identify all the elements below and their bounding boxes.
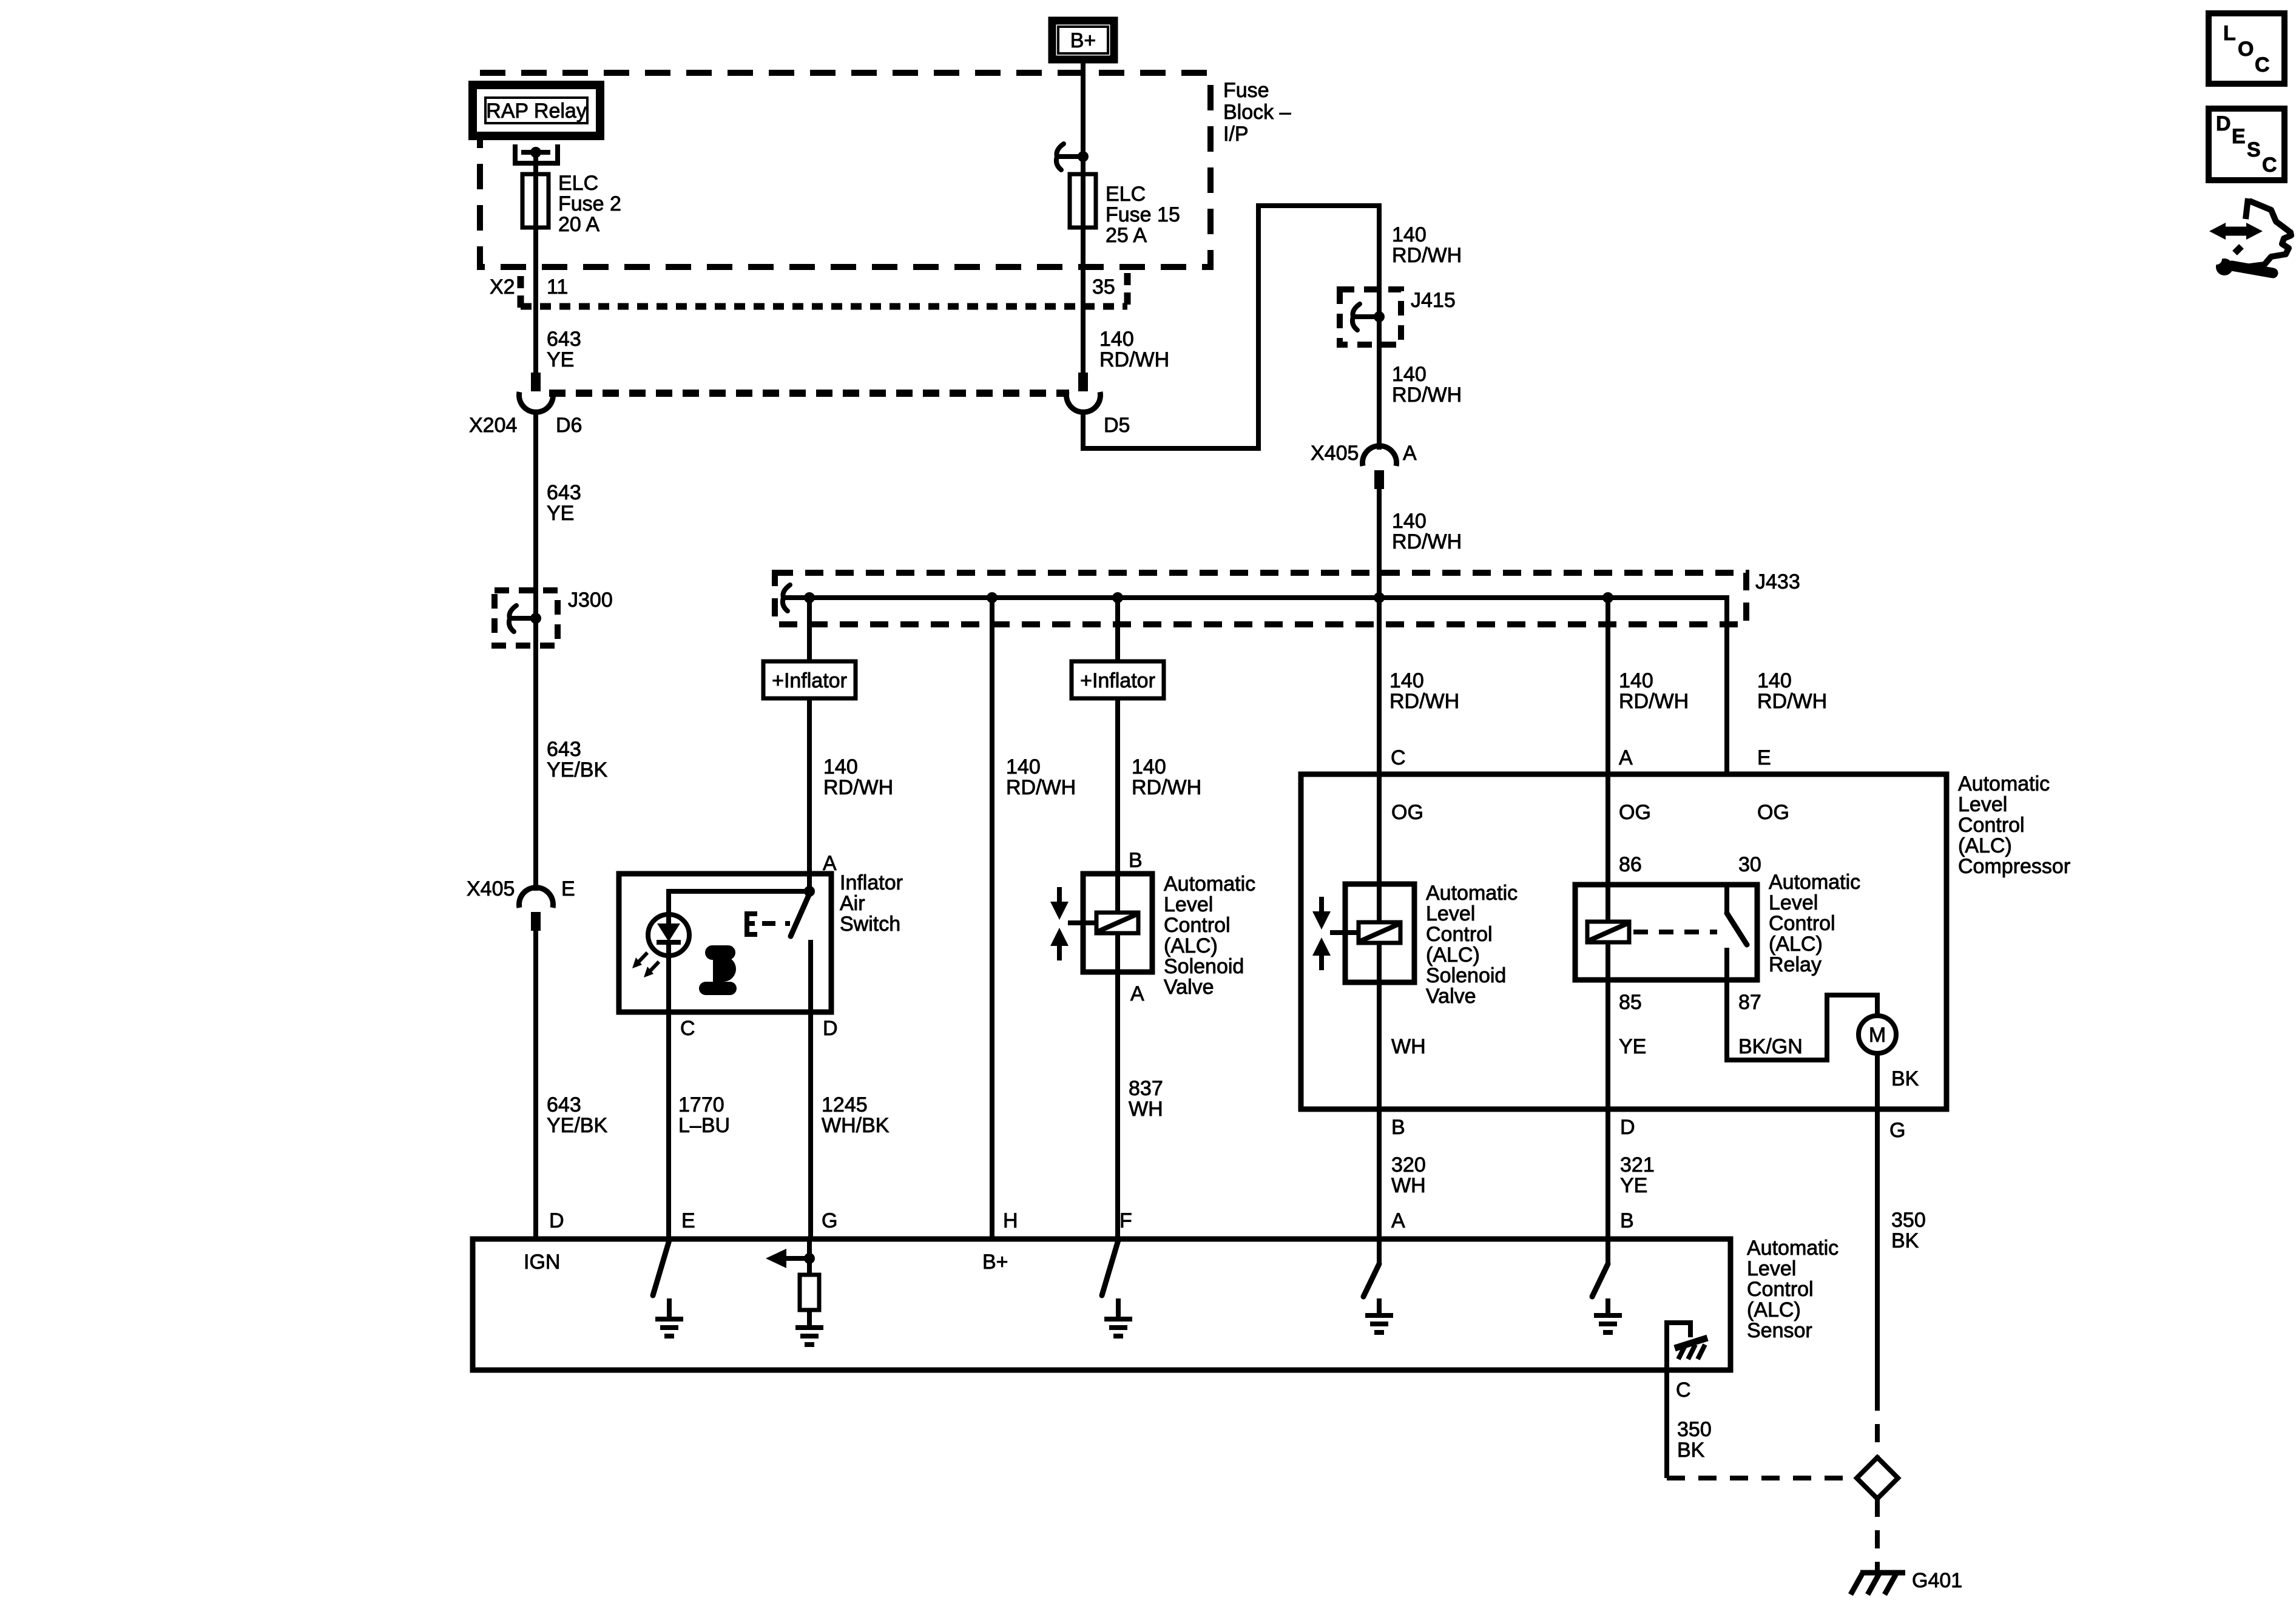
svg-text:YE: YE [547, 502, 574, 525]
wire left 643 [533, 410, 538, 593]
wire label 643 YE/BK [547, 1093, 607, 1137]
ALC compressor box [1301, 774, 1947, 1109]
svg-text:643: 643 [547, 328, 581, 351]
svg-text:35: 35 [1092, 275, 1115, 299]
svg-text:B+: B+ [982, 1251, 1008, 1274]
svg-text:Control: Control [1747, 1278, 1814, 1301]
wire label 350 BK [1891, 1209, 1926, 1252]
wire label 1770 L-BU [678, 1093, 730, 1137]
svg-text:L–BU: L–BU [678, 1114, 730, 1137]
icon wrench [2208, 251, 2273, 275]
ground G401 [1851, 1573, 1905, 1595]
svg-text:RD/WH: RD/WH [1619, 690, 1689, 713]
ground at G [795, 1310, 823, 1345]
label Automatic Level Control (ALC) Relay [1769, 871, 1860, 976]
svg-text:140: 140 [1389, 669, 1424, 692]
connector half D6 [519, 373, 553, 412]
svg-text:E: E [2232, 125, 2246, 148]
svg-text:OG: OG [1619, 801, 1651, 824]
svg-text:140: 140 [1392, 510, 1427, 533]
check valve symbol 2 [1312, 897, 1331, 970]
svg-text:G: G [822, 1209, 837, 1232]
junction node [1602, 592, 1613, 603]
junction node [1374, 592, 1385, 603]
svg-text:Level: Level [1769, 891, 1818, 914]
svg-text:RD/WH: RD/WH [1006, 776, 1076, 799]
wire X405A down to splice bus [1377, 489, 1382, 598]
svg-text:B: B [1129, 849, 1143, 872]
svg-text:140: 140 [1006, 755, 1041, 778]
svg-text:Sensor: Sensor [1747, 1319, 1812, 1342]
svg-text:25 A: 25 A [1106, 224, 1147, 247]
svg-text:Fuse 15: Fuse 15 [1106, 203, 1180, 226]
wire label 140 RD/WH [1392, 223, 1462, 267]
relay coil [1587, 885, 1629, 980]
svg-text:WH: WH [1129, 1098, 1163, 1121]
svg-text:Control: Control [1958, 814, 2025, 837]
svg-text:L: L [2223, 22, 2236, 45]
ALC sensor box [473, 1239, 1730, 1370]
svg-text:Control: Control [1769, 912, 1835, 935]
wire valve2 to compressor bottom [1377, 982, 1382, 1109]
svg-text:20 A: 20 A [558, 213, 599, 236]
svg-text:Relay: Relay [1769, 953, 1822, 976]
svg-text:140: 140 [1619, 669, 1653, 692]
svg-text:YE: YE [547, 348, 574, 371]
svg-text:(ALC): (ALC) [1426, 944, 1480, 967]
wire B+ down to fuse 15 [1081, 59, 1086, 373]
svg-text:ELC: ELC [1106, 183, 1146, 206]
motor M [1859, 1016, 1896, 1053]
label Automatic Level Control (ALC) Compressor [1958, 772, 2070, 878]
label Automatic Level Control (ALC) Solenoid Valve [1164, 873, 1255, 999]
svg-text:Air: Air [840, 892, 865, 915]
svg-text:D: D [2216, 112, 2231, 135]
icon hand outline [2246, 198, 2291, 267]
svg-text:A: A [1403, 442, 1417, 465]
junction node [804, 592, 815, 603]
svg-text:WH: WH [1391, 1174, 1426, 1197]
wire D to sensor G [808, 1012, 813, 1239]
+Inflator tag 1 [763, 661, 856, 698]
wire compressor B to sensor A [1377, 1109, 1382, 1239]
svg-text:WH/BK: WH/BK [822, 1114, 890, 1137]
svg-text:YE: YE [1620, 1174, 1647, 1197]
svg-text:643: 643 [547, 1093, 581, 1116]
check valve symbol 1 [1050, 887, 1069, 960]
svg-text:140: 140 [1392, 223, 1427, 246]
svg-text:643: 643 [547, 481, 581, 504]
fuse ELC Fuse 2 20 A [522, 174, 549, 228]
svg-text:M: M [1869, 1024, 1886, 1047]
ALC solenoid valve 2 box [1345, 884, 1414, 982]
icon DESC [2209, 109, 2284, 180]
bus wire J433 [783, 598, 1727, 774]
svg-text:Level: Level [1958, 793, 2007, 816]
svg-text:RD/WH: RD/WH [823, 776, 893, 799]
svg-text:E: E [1757, 746, 1771, 769]
svg-text:BK: BK [1891, 1229, 1919, 1252]
wire label 643 YE/BK [547, 738, 607, 781]
wire fuse2 stem [533, 152, 538, 373]
svg-text:140: 140 [823, 755, 858, 778]
wire 643 YE/BK upper [533, 593, 538, 891]
wire bus to compressor A [1606, 598, 1610, 922]
splice J415 [1340, 289, 1401, 345]
svg-text:11: 11 [547, 275, 568, 299]
svg-text:E: E [681, 1209, 695, 1232]
svg-text:G401: G401 [1912, 1569, 1962, 1592]
svg-text:Automatic: Automatic [1747, 1237, 1838, 1260]
junction node [1112, 592, 1123, 603]
junction node switch A [804, 886, 815, 897]
svg-text:S: S [2247, 138, 2261, 161]
svg-text:YE/BK: YE/BK [547, 758, 607, 781]
label ELC Fuse 15 25 A [1106, 183, 1180, 247]
LED indicator [632, 914, 689, 977]
wire compressor D to sensor B [1606, 1109, 1610, 1239]
svg-text:140: 140 [1132, 755, 1166, 778]
fuse ELC Fuse 15 25 A [1070, 174, 1096, 228]
svg-text:X2: X2 [490, 275, 515, 299]
svg-text:(ALC): (ALC) [1747, 1298, 1801, 1322]
svg-text:G: G [1889, 1119, 1905, 1142]
wire label 140 RD/WH [1099, 328, 1169, 371]
wire +Inflator1 to switch A [807, 698, 812, 891]
svg-text:Solenoid: Solenoid [1426, 964, 1506, 987]
svg-text:RD/WH: RD/WH [1757, 690, 1827, 713]
connector half D5 [1067, 373, 1101, 412]
wire label 1245 WH/BK [822, 1093, 890, 1137]
svg-text:Level: Level [1164, 893, 1213, 916]
svg-text:86: 86 [1619, 853, 1642, 876]
+Inflator tag 2 [1072, 661, 1164, 698]
svg-text:Automatic: Automatic [1958, 772, 2050, 795]
svg-text:837: 837 [1129, 1077, 1163, 1100]
switch actuator E linkage [747, 914, 790, 934]
svg-text:RD/WH: RD/WH [1132, 776, 1201, 799]
sensor wiper arrow [766, 1239, 815, 1275]
relay switch contact [1727, 885, 1747, 980]
wire label 140 RD/WH [1006, 755, 1076, 799]
label Inflator Air Switch [840, 871, 903, 936]
switch at B [1592, 1239, 1622, 1332]
svg-text:D6: D6 [556, 414, 582, 437]
svg-text:320: 320 [1391, 1153, 1426, 1176]
wire label 140 RD/WH [1389, 669, 1459, 713]
wire bus to +Inflator 1 [807, 598, 812, 661]
svg-text:Valve: Valve [1164, 976, 1214, 999]
svg-text:(ALC): (ALC) [1769, 933, 1823, 956]
svg-text:140: 140 [1757, 669, 1792, 692]
dashed wire to diamond [1875, 1393, 1880, 1459]
wire label 643 YE [547, 481, 581, 525]
svg-text:J300: J300 [568, 589, 613, 612]
internal wire to LED [669, 891, 809, 915]
svg-text:I/P: I/P [1223, 123, 1249, 146]
svg-text:D5: D5 [1104, 414, 1130, 437]
svg-text:D: D [1620, 1116, 1635, 1139]
svg-text:Inflator: Inflator [840, 871, 903, 894]
svg-text:Fuse 2: Fuse 2 [558, 192, 621, 215]
wire G down solid [1875, 1109, 1880, 1393]
svg-text:1770: 1770 [678, 1093, 724, 1116]
wire label 320 WH [1391, 1153, 1426, 1197]
switch at F [1102, 1240, 1132, 1336]
connector X204 dashed row [549, 390, 1069, 397]
wire label 140 RD/WH [1132, 755, 1201, 799]
wire bus to +Inflator 2 [1115, 598, 1120, 661]
splice J300 [495, 590, 558, 646]
dashed wire C to diamond [1667, 1476, 1857, 1480]
fuse holder bracket above ELC Fuse 2 [515, 144, 558, 163]
svg-text:B: B [1391, 1116, 1405, 1139]
svg-text:WH: WH [1391, 1035, 1426, 1058]
svg-text:O: O [2238, 38, 2254, 61]
svg-text:+Inflator: +Inflator [772, 669, 847, 692]
wire label 837 WH [1129, 1077, 1163, 1121]
icon LOC [2209, 13, 2284, 84]
wire valve1 to sensor F [1115, 972, 1120, 1239]
svg-text:321: 321 [1620, 1153, 1655, 1176]
RAP Relay box [473, 85, 600, 136]
svg-text:+Inflator: +Inflator [1080, 669, 1155, 692]
svg-text:A: A [1619, 746, 1633, 769]
svg-text:Fuse: Fuse [1223, 79, 1269, 102]
svg-text:BK/GN: BK/GN [1738, 1035, 1803, 1058]
solenoid coil valve 1 [1068, 874, 1138, 972]
switch contact [791, 894, 811, 1012]
connector half X405 E [519, 888, 553, 931]
svg-text:YE/BK: YE/BK [547, 1114, 607, 1137]
svg-text:30: 30 [1738, 853, 1761, 876]
svg-text:Automatic: Automatic [1164, 873, 1255, 896]
solenoid coil valve 2 [1330, 884, 1400, 982]
dashed wire diamond to G401 [1875, 1499, 1880, 1571]
wire bus to compressor C [1377, 598, 1382, 884]
svg-text:85: 85 [1619, 991, 1642, 1014]
svg-text:C: C [680, 1017, 695, 1040]
svg-text:IGN: IGN [524, 1251, 560, 1274]
svg-text:C: C [1391, 746, 1406, 769]
svg-text:C: C [2255, 53, 2270, 76]
svg-text:Block –: Block – [1223, 101, 1291, 124]
svg-text:A: A [1391, 1209, 1405, 1232]
svg-text:Solenoid: Solenoid [1164, 955, 1244, 978]
svg-text:YE: YE [1619, 1035, 1646, 1058]
svg-text:Automatic: Automatic [1426, 882, 1518, 905]
wire label 350 BK [1677, 1418, 1712, 1462]
label Automatic Level Control (ALC) Solenoid Valve [1426, 882, 1518, 1008]
svg-text:J433: J433 [1755, 570, 1800, 593]
resistor at G [800, 1275, 819, 1310]
label Automatic Level Control (ALC) Sensor [1747, 1237, 1838, 1342]
svg-text:ELC: ELC [558, 172, 598, 195]
svg-text:RD/WH: RD/WH [1389, 690, 1459, 713]
svg-text:Control: Control [1426, 923, 1493, 946]
svg-text:A: A [1130, 982, 1144, 1005]
label ELC Fuse 2 20 A [558, 172, 621, 236]
svg-text:350: 350 [1677, 1418, 1712, 1441]
wire sensor C down [1664, 1370, 1669, 1478]
svg-text:X204: X204 [469, 414, 517, 437]
svg-text:350: 350 [1891, 1209, 1926, 1232]
svg-text:Control: Control [1164, 914, 1231, 937]
svg-text:1245: 1245 [822, 1093, 868, 1116]
wire +Inflator2 to valve B [1115, 698, 1120, 874]
svg-text:E: E [561, 877, 575, 900]
junction node [987, 592, 998, 603]
Inflator Air Switch box [619, 874, 831, 1012]
svg-text:(ALC): (ALC) [1958, 834, 2012, 857]
wire motor to G [1875, 1053, 1880, 1109]
wire label 140 RD/WH [823, 755, 893, 799]
wire LED to C [666, 956, 671, 1239]
sensor internal chassis ground [1667, 1323, 1707, 1370]
svg-text:Compressor: Compressor [1958, 855, 2070, 878]
svg-text:RD/WH: RD/WH [1392, 530, 1462, 553]
svg-text:C: C [1676, 1379, 1691, 1402]
wire relay 87 to motor [1727, 980, 1877, 1060]
ALC relay box [1575, 885, 1757, 980]
wire bus to sensor H [990, 598, 994, 1239]
svg-text:BK: BK [1891, 1067, 1919, 1090]
pressure icon [699, 945, 737, 995]
wire label 140 RD/WH [1392, 510, 1462, 553]
svg-text:Valve: Valve [1426, 985, 1476, 1008]
wire 643 YE/BK lower to sensor [533, 931, 538, 1239]
power feed B+ box [1052, 21, 1114, 59]
svg-text:B: B [1620, 1209, 1634, 1232]
svg-text:87: 87 [1738, 991, 1761, 1014]
svg-text:(ALC): (ALC) [1164, 934, 1218, 957]
connector half X405 A [1363, 446, 1397, 489]
svg-text:Level: Level [1426, 902, 1475, 925]
switch at A [1363, 1239, 1393, 1332]
svg-text:643: 643 [547, 738, 581, 761]
wire label 643 YE [547, 328, 581, 371]
svg-text:X405: X405 [1311, 442, 1359, 465]
svg-text:C: C [2262, 154, 2277, 177]
fuse block I/P dashed outline [480, 73, 1210, 267]
splice J433 dashed box [775, 573, 1746, 624]
svg-text:RD/WH: RD/WH [1099, 348, 1169, 371]
splice diamond [1857, 1457, 1898, 1499]
svg-text:RD/WH: RD/WH [1392, 244, 1462, 267]
svg-text:RAP Relay: RAP Relay [486, 100, 587, 123]
icon double arrow [2209, 223, 2263, 240]
wire label 321 YE [1620, 1153, 1655, 1197]
svg-text:Automatic: Automatic [1769, 871, 1860, 894]
svg-text:B+: B+ [1070, 29, 1096, 52]
svg-text:OG: OG [1391, 801, 1423, 824]
relay linkage dashes [1633, 930, 1717, 934]
splice hook J433 [783, 585, 790, 611]
wire label 140 RD/WH [1392, 363, 1462, 407]
svg-text:D: D [823, 1017, 838, 1040]
svg-text:Switch: Switch [840, 913, 900, 936]
wire label 140 RD/WH [1619, 669, 1689, 713]
connector X2 dashed row [521, 273, 1127, 308]
ALC solenoid valve 1 box [1083, 874, 1152, 972]
svg-text:RD/WH: RD/WH [1392, 383, 1462, 407]
svg-text:140: 140 [1099, 328, 1134, 351]
label Fuse Block - I/P [1223, 79, 1291, 146]
wire relay 85 to compressor bottom [1606, 980, 1610, 1109]
svg-text:J415: J415 [1411, 289, 1456, 312]
switch at E [653, 1240, 683, 1336]
svg-text:OG: OG [1757, 801, 1789, 824]
svg-text:H: H [1003, 1209, 1018, 1232]
svg-text:140: 140 [1392, 363, 1427, 386]
svg-text:D: D [549, 1209, 564, 1232]
svg-text:Level: Level [1747, 1257, 1796, 1280]
wire D5 to riser [1083, 206, 1379, 450]
svg-text:BK: BK [1677, 1439, 1705, 1462]
wire label 140 RD/WH [1757, 669, 1827, 713]
svg-text:X405: X405 [467, 877, 515, 900]
svg-text:F: F [1119, 1209, 1132, 1232]
splice hook at fuse 15 [1056, 144, 1089, 170]
